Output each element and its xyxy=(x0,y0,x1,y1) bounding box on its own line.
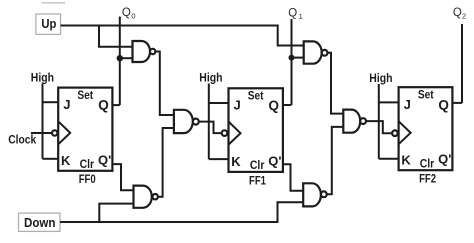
wire High FF1 to J xyxy=(209,102,229,104)
wire High FF0 vertical xyxy=(42,84,44,159)
svg-text:High: High xyxy=(199,71,222,85)
wire High FF2 vertical xyxy=(378,84,380,159)
flip-flop FF2 box xyxy=(399,87,453,170)
wire U1 output to U2 xyxy=(155,52,174,116)
nand gate U4 xyxy=(304,41,328,63)
svg-text:J: J xyxy=(404,97,411,112)
wire Up rail xyxy=(61,25,278,27)
svg-text:Clr: Clr xyxy=(80,157,95,171)
wire U3 output to U2 xyxy=(158,128,174,197)
svg-text:Q: Q xyxy=(288,8,297,20)
wire High FF0 to K xyxy=(43,158,59,160)
nand gate U3 xyxy=(134,186,158,208)
svg-text:Down: Down xyxy=(24,216,56,230)
svg-text:FF1: FF1 xyxy=(249,173,266,187)
node Q0 label xyxy=(122,7,136,20)
wire FF1 Q' to U6 xyxy=(283,164,303,191)
svg-text:K: K xyxy=(231,154,241,169)
wire node Q2 vertical xyxy=(461,24,463,103)
wire Down rail xyxy=(60,221,278,223)
svg-text:Q: Q xyxy=(438,97,449,112)
wire Down branch to U3 xyxy=(99,204,133,223)
input box Down xyxy=(19,213,61,231)
junction dot on Q1 xyxy=(289,55,295,61)
svg-text:Q': Q' xyxy=(438,152,451,167)
svg-text:Set: Set xyxy=(77,88,93,102)
flip-flop FF0 box xyxy=(58,88,112,171)
nand gate U1 xyxy=(133,41,156,62)
wire U6 output to U5 xyxy=(327,127,344,194)
svg-text:1: 1 xyxy=(299,12,303,21)
svg-text:Q: Q xyxy=(122,7,131,19)
wire High FF1 to K xyxy=(209,158,229,160)
wire Down rise to U6 xyxy=(278,202,304,223)
wire U2 output to FF1 clock xyxy=(199,122,222,134)
wire Up drop to U4 xyxy=(278,25,304,46)
node Q2 label xyxy=(453,7,466,20)
wire node Q1 vertical xyxy=(291,19,293,105)
wire FF0 Q' to U3 xyxy=(112,164,133,190)
flip-flop FF1 box xyxy=(229,88,283,172)
svg-text:Q: Q xyxy=(269,98,280,113)
svg-text:Set: Set xyxy=(248,89,264,103)
wire High FF2 to K xyxy=(379,158,399,160)
clock bubble FF1 xyxy=(222,130,228,136)
node Q1 label xyxy=(288,8,302,22)
svg-text:J: J xyxy=(63,97,70,112)
nand gate U5 xyxy=(343,110,366,133)
svg-text:High: High xyxy=(369,71,392,85)
wire High FF0 to J xyxy=(43,101,59,103)
svg-text:High: High xyxy=(31,71,54,85)
svg-text:Clock: Clock xyxy=(8,133,36,147)
svg-text:J: J xyxy=(234,98,241,113)
nand gate U2 xyxy=(174,110,199,133)
wire FF2 Q to node Q2 xyxy=(452,102,462,104)
svg-text:Q: Q xyxy=(453,7,462,19)
svg-text:K: K xyxy=(401,152,411,167)
svg-text:Q: Q xyxy=(98,97,109,112)
clock bubble FF2 xyxy=(392,130,398,136)
wire High FF2 to J xyxy=(379,101,399,103)
wire Clock to FF0 xyxy=(31,132,52,134)
svg-text:0: 0 xyxy=(131,11,135,20)
FF0 clock triangle xyxy=(58,121,70,144)
wire node Q0 vertical xyxy=(119,17,121,106)
FF2 clock triangle xyxy=(399,121,411,144)
wire FF1 Q to node Q1 xyxy=(283,104,292,106)
wire Q0 tap to U1 xyxy=(120,57,133,59)
svg-text:Clr: Clr xyxy=(420,157,435,171)
svg-text:Q': Q' xyxy=(268,153,281,168)
svg-text:Up: Up xyxy=(41,16,56,31)
wire Up branch to U1 xyxy=(99,25,133,47)
svg-text:Set: Set xyxy=(418,88,434,102)
wire U5 output to FF2 clock xyxy=(366,121,392,133)
svg-text:FF2: FF2 xyxy=(419,172,436,186)
nand gate U6 xyxy=(303,183,326,206)
artifact faint line top edge xyxy=(42,2,66,4)
svg-text:K: K xyxy=(61,153,71,168)
wire U4 output to U5 xyxy=(328,53,344,114)
input box Up xyxy=(36,14,61,34)
svg-text:2: 2 xyxy=(462,11,466,20)
clock bubble FF0 xyxy=(52,130,57,135)
svg-text:FF0: FF0 xyxy=(79,172,96,186)
svg-text:Clr: Clr xyxy=(250,158,265,172)
wire FF0 Q to node Q0 xyxy=(112,104,119,106)
junction dot on Q0 xyxy=(117,55,123,61)
svg-text:Q': Q' xyxy=(98,152,111,167)
wire High FF1 vertical xyxy=(208,84,210,160)
FF1 clock triangle xyxy=(229,122,241,145)
wire Q1 tap to U4 xyxy=(292,57,304,59)
